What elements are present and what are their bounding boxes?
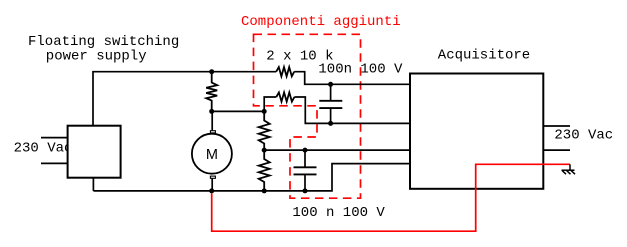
svg-text:power supply: power supply — [46, 48, 147, 64]
capacitor C1 bottom lead — [330, 108, 332, 123]
node: C2 bottom junction — [303, 188, 308, 193]
node: R4/R5 junction — [262, 148, 267, 153]
node: C1 top junction — [328, 82, 333, 87]
capacitor C2 bottom lead — [304, 174, 306, 191]
svg-text:M: M — [206, 147, 218, 163]
resistor R3 (horizontal, second 10k) — [264, 92, 410, 123]
capacitor C1 plates — [319, 101, 342, 108]
wire: PSU bottom drop — [92, 178, 94, 191]
wire: left 230Vac upper stub — [41, 137, 68, 139]
motor M terminal (top) — [210, 131, 215, 133]
resistor R4 (vertical upper of divider) — [259, 111, 270, 150]
wire: left 230Vac lower stub — [41, 162, 68, 164]
power supply box — [68, 126, 121, 178]
wire: mid rail to acquisitore (y=150) — [264, 149, 410, 151]
svg-text:Componenti aggiunti: Componenti aggiunti — [241, 14, 401, 30]
resistor R5 (vertical lower of divider) — [259, 150, 270, 191]
node: R5 bottom junction — [262, 188, 267, 193]
resistor R1 (vertical, from top rail) — [206, 72, 217, 112]
capacitor C2 plates — [294, 167, 317, 174]
node: C2 top junction — [303, 148, 308, 153]
wire: motor bottom lead — [211, 178, 213, 191]
wire: motor top lead — [211, 111, 213, 130]
svg-text:Acquisitore: Acquisitore — [438, 48, 530, 64]
resistor R2 (horizontal, top, 10k) — [276, 67, 294, 76]
label: Floating switching power supply — [28, 34, 179, 64]
ground (chassis earth) — [562, 164, 576, 174]
capacitor C1 (100n top): top lead — [330, 84, 332, 101]
svg-text:100 n 100 V: 100 n 100 V — [292, 205, 385, 221]
node: R4 top junction — [262, 109, 267, 114]
motor M body — [192, 134, 232, 174]
wire: mid horizontal R1 bottom to R4 top — [212, 110, 265, 112]
node: C1 bottom junction — [328, 121, 333, 126]
wire: R2 right lead down to top cap rail — [294, 72, 410, 85]
capacitor C2 (100n bottom): top lead — [304, 150, 306, 167]
acquisitore box — [410, 74, 543, 189]
wire: PSU top to top rail — [93, 72, 276, 126]
wire: right 230Vac lower stub — [543, 149, 570, 151]
node: motor bottom junction — [209, 188, 214, 193]
wire: right 230Vac upper stub — [543, 125, 570, 127]
node: top rail / R1 junction — [209, 69, 214, 74]
red dashed boundary: componenti aggiunti region — [254, 34, 361, 198]
red earth wire from motor node to ground — [212, 164, 570, 231]
motor M terminal (bottom) — [210, 176, 215, 178]
wire: bottom rail — [93, 164, 410, 191]
svg-text:230 Vac: 230 Vac — [14, 141, 73, 157]
node: R1 bottom junction — [209, 109, 214, 114]
svg-text:230 Vac: 230 Vac — [554, 128, 613, 144]
